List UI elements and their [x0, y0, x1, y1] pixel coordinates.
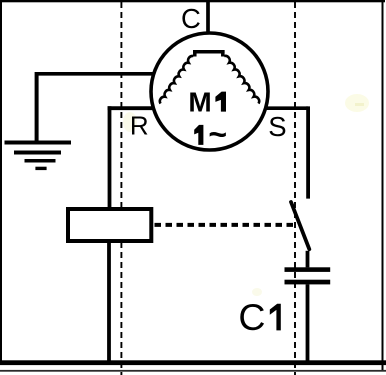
- svg-text:S: S: [268, 111, 286, 142]
- svg-text:R: R: [130, 110, 149, 140]
- svg-text:M: M: [188, 87, 211, 118]
- svg-text:~: ~: [208, 116, 227, 152]
- svg-text:C: C: [238, 296, 265, 338]
- svg-text:C: C: [181, 3, 201, 34]
